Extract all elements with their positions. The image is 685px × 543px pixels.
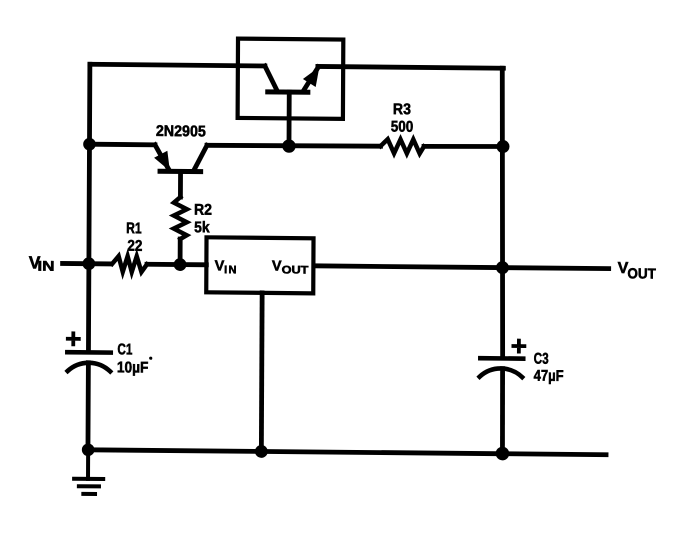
ground symbol: [74, 450, 103, 494]
node input rail / main line junction: [82, 257, 95, 270]
transistor Q1 arrow: [303, 67, 320, 87]
resistor R3 zigzag: [380, 139, 424, 153]
regulator U1 box: [206, 237, 313, 293]
wire main input line: [60, 261, 112, 266]
node bottom rail left junction: [82, 443, 95, 456]
node input rail / collector line junction: [83, 138, 96, 151]
svg-text:5k: 5k: [194, 219, 210, 236]
wire top rail right segment: [318, 66, 504, 68]
svg-text:22: 22: [127, 238, 142, 255]
svg-text:C1: C1: [117, 341, 132, 358]
svg-text:R1: R1: [126, 220, 142, 237]
svg-text:47µF: 47µF: [534, 368, 564, 385]
svg-text:2N2905: 2N2905: [156, 123, 206, 140]
capacitor C1 plus sign: [68, 333, 79, 344]
wire R2 lower lead: [178, 239, 183, 264]
capacitor C3 curved plate: [480, 368, 523, 377]
svg-text:R2: R2: [194, 202, 212, 219]
capacitor C3 plus sign: [513, 341, 524, 352]
svg-text:C3: C3: [534, 351, 549, 368]
transistor Q1 base lead: [287, 92, 292, 146]
transistor Q1 collector diagonal: [304, 67, 319, 91]
wire collector line (second rail): [89, 142, 154, 147]
regulator pin label VIN: [215, 258, 237, 276]
capacitor C3 top plate: [480, 356, 523, 361]
wire top rail left segment: [90, 64, 265, 66]
wire collector line right: [424, 146, 503, 147]
wire right rail lower: [500, 369, 506, 454]
svg-text:500: 500: [391, 118, 414, 135]
wire left rail: [88, 64, 89, 350]
transistor Q1 emitter diagonal: [265, 66, 277, 90]
resistor R2 zigzag: [174, 197, 187, 239]
wire regulator ground lead: [259, 293, 265, 452]
wire output line: [313, 266, 611, 269]
svg-text:IN: IN: [224, 264, 236, 276]
node bottom rail right junction: [496, 447, 510, 461]
transistor Q2 collector diagonal: [194, 145, 207, 169]
label VIN input: [29, 252, 55, 273]
wire collector line mid: [207, 145, 381, 147]
transistor Q1 (boosted pass transistor in package box): [238, 39, 344, 119]
node output / right rail junction: [496, 261, 509, 274]
node Q1 base junction: [282, 139, 295, 153]
svg-text:R3: R3: [393, 101, 411, 118]
svg-text:10µF: 10µF: [117, 359, 149, 376]
svg-text:OUT: OUT: [627, 266, 656, 282]
svg-text:V: V: [272, 259, 282, 275]
scan speck after 10uF: [149, 357, 152, 360]
wire right rail: [501, 68, 504, 356]
regulator pin label VOUT: [272, 259, 309, 277]
wire bottom rail: [88, 450, 608, 455]
transistor Q2 2N2905 emitter diagonal: [155, 145, 169, 169]
transistor Q1 base bar: [268, 89, 308, 94]
transistor Q2 emitter arrow: [154, 151, 170, 171]
node collector line / right rail junction: [496, 140, 509, 153]
capacitor C1 curved plate: [68, 363, 111, 372]
transistor Q2 base bar: [160, 169, 201, 174]
wire R1 to regulator: [147, 262, 206, 267]
wire left rail lower: [86, 363, 91, 450]
svg-text:OUT: OUT: [282, 264, 309, 276]
node R2 / main line junction: [174, 258, 187, 271]
capacitor C1 top plate: [67, 350, 110, 355]
resistor R1 zigzag: [112, 256, 147, 272]
label VOUT output: [618, 260, 656, 283]
svg-text:IN: IN: [37, 258, 54, 274]
transistor Q2 base lead: [178, 171, 183, 197]
node bottom rail regulator ground junction: [255, 445, 268, 458]
